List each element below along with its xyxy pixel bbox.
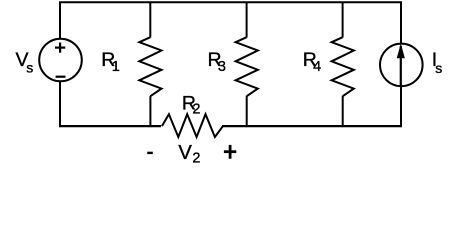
current source Is (380, 44, 423, 87)
wire R4 top stub (342, 2, 344, 38)
svg-text:4: 4 (313, 59, 321, 75)
svg-text:3: 3 (218, 59, 226, 75)
wire R3 top stub (246, 2, 248, 38)
svg-text:s: s (26, 60, 33, 76)
resistor R3 (236, 37, 258, 96)
resistor R2 (162, 114, 223, 137)
svg-text:1: 1 (112, 59, 120, 75)
svg-text:2: 2 (192, 102, 200, 118)
wire bottom right (222, 125, 402, 127)
wire right lower (400, 86, 402, 128)
label R1 (101, 49, 119, 75)
resistor R4 (332, 37, 354, 96)
label V2 plus sign (224, 145, 236, 159)
svg-text:V: V (178, 142, 192, 164)
wire left upper (59, 2, 61, 39)
voltage source Vs (39, 39, 82, 82)
wire R1 top stub (149, 2, 151, 38)
label R4 (303, 49, 321, 75)
svg-text:s: s (435, 60, 442, 76)
wire right upper (400, 2, 402, 45)
wire left lower (59, 81, 61, 127)
label V2 (178, 142, 200, 167)
label V2 minus sign (147, 152, 153, 154)
wire R4 bottom stub (342, 96, 344, 127)
label Vs (16, 49, 34, 76)
label R3 (208, 49, 226, 75)
wire top (59, 1, 402, 3)
wire R3 bottom stub (246, 96, 248, 127)
label Is (432, 49, 443, 76)
wire bottom left (59, 125, 161, 127)
svg-text:2: 2 (192, 151, 200, 167)
resistor R1 (139, 37, 161, 96)
label R2 (182, 93, 201, 118)
wire R1 bottom stub (149, 96, 151, 127)
